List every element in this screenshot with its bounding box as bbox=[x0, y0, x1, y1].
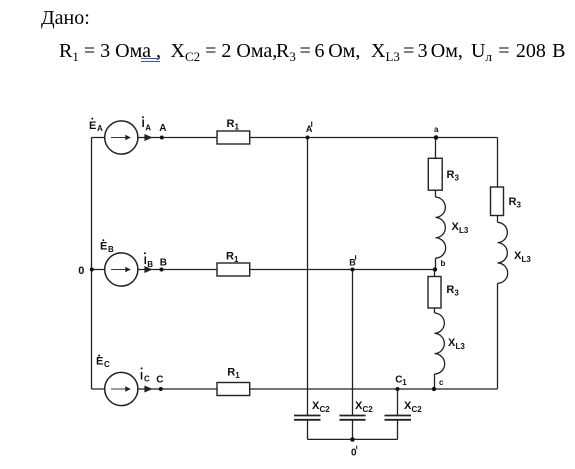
svg-text:1: 1 bbox=[234, 255, 239, 264]
node C junction bbox=[159, 387, 163, 391]
resistor R1 phase C bbox=[217, 383, 250, 396]
svg-text:C2: C2 bbox=[320, 405, 331, 414]
svg-text:3: 3 bbox=[517, 201, 522, 210]
inductor XL3 right branch coil bbox=[498, 222, 508, 283]
svg-text:C2: C2 bbox=[363, 405, 374, 414]
svg-text:R: R bbox=[446, 284, 454, 296]
label IC bbox=[140, 367, 150, 383]
node A junction bbox=[160, 136, 164, 140]
wire right branch vertical lower bbox=[497, 283, 499, 389]
label R1 phase C bbox=[227, 367, 240, 381]
svg-text:R: R bbox=[509, 196, 517, 208]
source EC circle bbox=[105, 372, 138, 405]
label R1 phase A bbox=[227, 118, 240, 132]
node c junction bbox=[432, 387, 436, 391]
svg-text:b: b bbox=[441, 259, 446, 268]
svg-text:B: B bbox=[147, 260, 153, 269]
svg-text:c: c bbox=[439, 378, 444, 387]
svg-text:R: R bbox=[227, 367, 235, 379]
grammar underline bbox=[141, 58, 161, 62]
svg-text:E: E bbox=[89, 120, 96, 132]
svg-text:A: A bbox=[159, 123, 166, 134]
svg-text:I: I bbox=[142, 118, 145, 130]
wire right branch vertical upper bbox=[497, 138, 499, 223]
label XC2 B bbox=[355, 400, 373, 414]
wire B' vertical bbox=[352, 270, 354, 416]
resistor R1 phase A bbox=[217, 131, 250, 144]
heading text bbox=[41, 8, 90, 28]
svg-text:E: E bbox=[96, 356, 103, 368]
wire phase B horizontal bbox=[92, 269, 436, 271]
label node B' bbox=[349, 255, 356, 268]
value label R1 = 3 Ома bbox=[59, 41, 161, 61]
svg-text:L3: L3 bbox=[456, 342, 466, 351]
wire b-branch upper bbox=[434, 270, 436, 314]
svg-text:I: I bbox=[140, 371, 143, 383]
svg-text:3: 3 bbox=[454, 288, 459, 297]
node a junction bbox=[434, 135, 439, 140]
svg-text:B: B bbox=[108, 245, 114, 254]
wire b-branch lower bbox=[434, 374, 436, 389]
capacitor XC2 A plates bbox=[294, 416, 321, 420]
label IB bbox=[144, 252, 154, 269]
wire A' vertical bbox=[307, 138, 309, 416]
label node 0' bbox=[351, 446, 357, 459]
capacitor XC2 B plates bbox=[340, 416, 366, 420]
svg-text:R: R bbox=[226, 251, 234, 263]
source EA inner arrow bbox=[111, 135, 131, 141]
node 0' junction bbox=[350, 437, 355, 442]
label R3 a-branch bbox=[447, 169, 460, 183]
source EA circle bbox=[105, 121, 138, 154]
svg-text:L3: L3 bbox=[522, 255, 532, 264]
value label R3 = 6 Ом bbox=[276, 41, 360, 61]
resistor R1 phase B bbox=[217, 263, 250, 276]
value label Ul = 208 V bbox=[471, 41, 565, 61]
current arrow IC bbox=[144, 386, 152, 393]
wire capacitor A bottom lead bbox=[307, 420, 309, 440]
resistor R3 right branch bbox=[491, 187, 504, 216]
svg-text:A: A bbox=[97, 124, 103, 133]
inductor XL3 b-branch coil bbox=[435, 313, 445, 374]
label XL3 right branch bbox=[514, 250, 531, 264]
node C1 junction bbox=[396, 387, 400, 391]
value label XC2 = 2 Ома bbox=[171, 41, 278, 61]
svg-text:1: 1 bbox=[402, 378, 407, 387]
svg-text:0: 0 bbox=[78, 265, 84, 277]
node B junction bbox=[160, 268, 164, 272]
source EB circle bbox=[105, 253, 138, 286]
wire capacitor C bottom lead bbox=[397, 420, 399, 440]
wire bottom bus 0' bbox=[308, 438, 398, 440]
svg-text:1: 1 bbox=[235, 123, 240, 132]
node 0 junction bbox=[90, 268, 94, 272]
source EB inner arrow bbox=[111, 267, 131, 273]
label node C1 bbox=[395, 374, 407, 387]
svg-text:I: I bbox=[144, 255, 147, 267]
svg-text:R: R bbox=[447, 169, 455, 181]
svg-text:B: B bbox=[160, 258, 167, 269]
label R1 phase B bbox=[226, 251, 239, 265]
svg-text:E: E bbox=[100, 241, 107, 253]
svg-text:C: C bbox=[104, 360, 110, 369]
current arrow IA bbox=[144, 134, 152, 141]
source EC inner arrow bbox=[111, 386, 131, 392]
label EC bbox=[96, 355, 110, 369]
label XC2 A bbox=[312, 400, 330, 414]
svg-text:C: C bbox=[144, 375, 150, 384]
label EA bbox=[89, 118, 103, 133]
wire phase C horizontal bbox=[92, 388, 498, 390]
resistor R3 a-branch bbox=[428, 158, 442, 190]
wire C1 vertical bbox=[397, 389, 399, 415]
label EB bbox=[100, 239, 114, 254]
inductor XL3 a-branch coil bbox=[436, 197, 446, 258]
label R3 right branch bbox=[509, 196, 522, 210]
label IA bbox=[142, 116, 152, 132]
svg-text:C: C bbox=[156, 375, 163, 386]
node b junction bbox=[433, 267, 437, 271]
label XC2 C bbox=[404, 400, 422, 414]
node B' junction bbox=[351, 268, 355, 272]
wire left vertical neutral bbox=[91, 138, 93, 390]
svg-text:3: 3 bbox=[455, 174, 460, 183]
current arrow IB bbox=[144, 266, 152, 273]
label XL3 a-branch bbox=[452, 221, 469, 235]
svg-text:A: A bbox=[145, 123, 151, 132]
svg-text:1: 1 bbox=[235, 371, 240, 380]
wire capacitor B bottom lead bbox=[352, 420, 354, 440]
wire a-branch upper bbox=[435, 138, 437, 198]
value label XL3 = 3 Ом bbox=[371, 41, 463, 61]
svg-text:0: 0 bbox=[351, 448, 357, 459]
svg-text:C2: C2 bbox=[412, 405, 423, 414]
svg-text:R: R bbox=[227, 118, 235, 130]
wire a-branch lower bbox=[435, 258, 437, 269]
node A' junction bbox=[306, 136, 310, 140]
label node A' bbox=[306, 122, 313, 134]
svg-text:a: a bbox=[434, 125, 439, 134]
capacitor XC2 C plates bbox=[385, 416, 412, 420]
svg-text:L3: L3 bbox=[459, 226, 469, 235]
label XL3 b-branch bbox=[448, 337, 465, 351]
resistor R3 b-branch bbox=[428, 277, 441, 309]
wire phase A horizontal bbox=[92, 137, 498, 139]
label R3 b-branch bbox=[446, 284, 459, 298]
